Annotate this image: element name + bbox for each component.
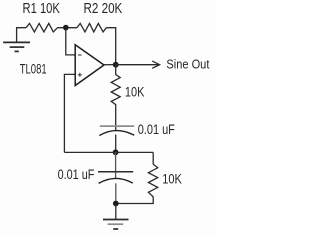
capacitor C2 (0.01 uF) flat plate [98, 171, 133, 173]
wire: R2 right lead to vertical drop [106, 28, 115, 65]
ground (left) [3, 42, 30, 51]
svg-text:10K: 10K [125, 85, 144, 100]
node D (bottom junction dot) [113, 201, 119, 207]
wire: op-amp output to node B [104, 64, 116, 66]
wire: R1 to R2 through node A [58, 27, 78, 29]
svg-text:10K: 10K [162, 171, 182, 187]
resistor R1 (10K) zigzag [26, 23, 58, 32]
op-amp plus pin mark [78, 73, 82, 77]
wire: node C down to C2 [115, 152, 117, 178]
op-amp U1 TL081 triangle [75, 45, 104, 86]
wire: ground stub to R1 (top-left corner) [17, 28, 26, 43]
wire: C2 bottom lead to node D [115, 183, 117, 203]
capacitor C1 curved plate [99, 131, 134, 136]
wire: horizontal rail from feedback line to R4 [64, 151, 153, 153]
svg-text:Sine Out: Sine Out [166, 57, 209, 71]
svg-text:0.01 uF: 0.01 uF [58, 166, 95, 182]
capacitor C2 curved plate [99, 178, 133, 183]
resistor R4 (10K) right vertical [116, 152, 158, 203]
wire: C1 bottom lead to node C [115, 135, 117, 153]
ground (bottom) [103, 220, 129, 230]
wire: node A down to inverting input [66, 28, 75, 55]
svg-text:0.01 uF: 0.01 uF [138, 121, 175, 137]
resistor R2 (20K) zigzag [77, 23, 106, 32]
wire: arrow to Sine Out [116, 61, 160, 68]
node A (junction dot after R1) [63, 25, 69, 31]
resistor R3 (10K) vertical below node B [111, 65, 120, 131]
svg-text:TL081: TL081 [20, 60, 47, 76]
svg-text:R1 10K: R1 10K [23, 1, 61, 17]
wire: non-inverting input feedback vertical [64, 74, 75, 152]
svg-text:R2 20K: R2 20K [84, 1, 123, 17]
node B (output junction dot) [113, 62, 119, 68]
node C (junction dot on feedback rail) [113, 149, 119, 155]
capacitor C1 (0.01 uF) flat gray plate [100, 125, 134, 127]
wire: node D down to bottom ground [115, 204, 117, 219]
op-amp minus pin mark [78, 54, 82, 56]
